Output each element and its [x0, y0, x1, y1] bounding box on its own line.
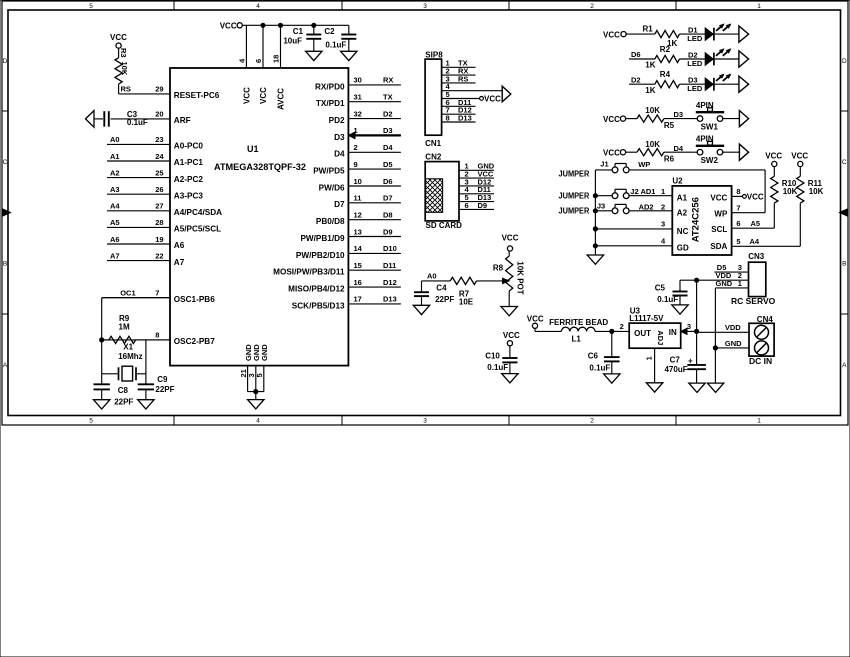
svg-text:PW/PB2/D10: PW/PB2/D10 [296, 251, 345, 260]
svg-text:A7: A7 [110, 251, 120, 260]
svg-text:19: 19 [155, 235, 163, 244]
svg-text:D4: D4 [334, 150, 345, 159]
svg-text:0.1uF: 0.1uF [487, 363, 508, 372]
svg-text:R6: R6 [664, 154, 675, 163]
svg-text:OSC1-PB6: OSC1-PB6 [174, 295, 215, 304]
svg-text:VCC: VCC [603, 115, 620, 124]
svg-text:0.1uF: 0.1uF [589, 364, 610, 373]
svg-text:LED: LED [687, 59, 703, 68]
svg-text:12: 12 [354, 211, 362, 220]
svg-text:J1: J1 [600, 160, 608, 169]
svg-text:D13: D13 [458, 113, 472, 122]
svg-text:7: 7 [736, 203, 740, 212]
svg-text:VCC: VCC [220, 22, 237, 31]
svg-text:PD2: PD2 [329, 116, 345, 125]
svg-text:FERRITE BEAD: FERRITE BEAD [549, 318, 608, 327]
svg-text:23: 23 [155, 135, 163, 144]
svg-text:WP: WP [714, 210, 728, 219]
svg-text:3: 3 [423, 3, 427, 10]
svg-text:RX: RX [383, 76, 393, 85]
svg-text:10K: 10K [645, 140, 660, 149]
svg-text:D4: D4 [674, 144, 684, 153]
svg-text:10E: 10E [459, 298, 474, 307]
svg-text:6: 6 [254, 59, 263, 63]
svg-text:ATMEGA328TQPF-32: ATMEGA328TQPF-32 [214, 162, 306, 173]
svg-text:10K: 10K [783, 187, 798, 196]
svg-text:VCC: VCC [710, 193, 727, 202]
svg-text:MISO/PB4/D12: MISO/PB4/D12 [288, 285, 345, 294]
svg-text:OSC2-PB7: OSC2-PB7 [174, 337, 215, 346]
svg-text:1: 1 [738, 279, 742, 288]
svg-text:D: D [3, 58, 8, 65]
svg-text:L1: L1 [572, 335, 582, 344]
svg-text:IN: IN [669, 328, 677, 337]
svg-text:+: + [688, 356, 693, 365]
svg-text:VDD: VDD [725, 323, 741, 332]
svg-text:A0: A0 [110, 135, 120, 144]
svg-text:VCC: VCC [110, 33, 127, 42]
svg-text:D6: D6 [631, 50, 641, 59]
svg-text:VCC: VCC [603, 148, 620, 157]
svg-text:D3: D3 [674, 110, 684, 119]
svg-text:C8: C8 [118, 386, 129, 395]
svg-text:30: 30 [354, 76, 362, 85]
svg-text:VCC: VCC [259, 87, 268, 104]
svg-text:13: 13 [354, 227, 362, 236]
svg-text:R4: R4 [660, 70, 671, 79]
svg-text:PW/PD5: PW/PD5 [313, 167, 345, 176]
svg-text:U1: U1 [247, 144, 259, 154]
svg-text:VCC: VCC [747, 193, 764, 202]
svg-text:20: 20 [155, 110, 163, 119]
svg-text:AVCC: AVCC [277, 88, 286, 110]
svg-text:A2: A2 [677, 208, 688, 217]
svg-text:8: 8 [736, 187, 740, 196]
svg-text:A1: A1 [110, 152, 120, 161]
svg-text:SDA: SDA [710, 242, 727, 251]
svg-text:10uF: 10uF [283, 37, 302, 46]
svg-text:PW/PB1/D9: PW/PB1/D9 [300, 234, 345, 243]
svg-text:TX/PD1: TX/PD1 [316, 99, 345, 108]
svg-text:R1: R1 [643, 25, 654, 34]
svg-text:JUMPER: JUMPER [559, 170, 590, 179]
svg-text:LED: LED [687, 84, 703, 93]
svg-text:L1117-5V: L1117-5V [629, 314, 664, 323]
svg-text:0.1uF: 0.1uF [127, 118, 148, 127]
svg-text:A5/PC5/SCL: A5/PC5/SCL [174, 225, 221, 234]
svg-text:D3: D3 [334, 133, 345, 142]
svg-text:1: 1 [757, 418, 761, 425]
svg-text:24: 24 [155, 152, 164, 161]
svg-text:0.1uF: 0.1uF [657, 295, 678, 304]
svg-text:NC: NC [677, 227, 689, 236]
svg-text:A3-PC3: A3-PC3 [174, 191, 204, 200]
svg-text:3: 3 [423, 418, 427, 425]
svg-text:VCC: VCC [243, 87, 252, 104]
svg-text:4: 4 [256, 3, 260, 10]
svg-text:D13: D13 [383, 295, 397, 304]
svg-text:R2: R2 [660, 45, 671, 54]
svg-text:22PF: 22PF [114, 398, 133, 407]
svg-text:0.1uF: 0.1uF [325, 41, 346, 50]
svg-text:AD2: AD2 [639, 202, 654, 211]
svg-text:CN1: CN1 [425, 139, 442, 148]
svg-text:7: 7 [155, 289, 159, 298]
svg-text:MOSI/PW/PB3/D11: MOSI/PW/PB3/D11 [273, 268, 345, 277]
svg-text:D2: D2 [631, 75, 641, 84]
svg-text:PW/D6: PW/D6 [319, 183, 345, 192]
svg-text:CN2: CN2 [425, 153, 442, 162]
svg-text:11: 11 [354, 194, 362, 203]
svg-text:25: 25 [155, 168, 163, 177]
svg-text:A5: A5 [110, 218, 120, 227]
svg-text:VCC: VCC [527, 314, 544, 323]
svg-text:A0: A0 [427, 272, 437, 281]
svg-text:A1-PC1: A1-PC1 [174, 158, 204, 167]
svg-text:10K: 10K [809, 187, 824, 196]
svg-text:SCK/PB5/D13: SCK/PB5/D13 [292, 301, 345, 310]
svg-text:1: 1 [645, 356, 654, 360]
svg-text:ADJ: ADJ [656, 330, 665, 345]
svg-text:D8: D8 [383, 211, 393, 220]
svg-text:VCC: VCC [603, 30, 620, 39]
svg-text:SD CARD: SD CARD [426, 221, 463, 230]
svg-text:GND: GND [716, 279, 733, 288]
svg-text:4PIN: 4PIN [696, 101, 714, 110]
svg-text:C: C [3, 159, 8, 166]
svg-text:1K: 1K [645, 86, 655, 95]
svg-text:1M: 1M [119, 322, 130, 331]
svg-text:5: 5 [89, 418, 93, 425]
svg-text:RS: RS [458, 74, 468, 83]
svg-text:A0-PC0: A0-PC0 [174, 142, 204, 151]
svg-text:A4/PC4/SDA: A4/PC4/SDA [174, 208, 222, 217]
svg-text:8: 8 [446, 113, 450, 122]
svg-text:JUMPER: JUMPER [559, 191, 590, 200]
svg-text:9: 9 [354, 160, 358, 169]
svg-text:1K: 1K [645, 61, 655, 70]
svg-text:A2: A2 [110, 168, 120, 177]
svg-text:D7: D7 [334, 200, 345, 209]
svg-text:R3: R3 [119, 48, 128, 58]
svg-text:D10: D10 [383, 244, 397, 253]
svg-text:C: C [842, 159, 847, 166]
svg-text:R8: R8 [493, 264, 504, 273]
svg-text:26: 26 [155, 185, 163, 194]
svg-text:28: 28 [155, 218, 163, 227]
svg-text:D7: D7 [383, 194, 393, 203]
svg-text:A4: A4 [110, 202, 120, 211]
svg-text:VCC: VCC [503, 331, 520, 340]
svg-text:SIP8: SIP8 [425, 50, 443, 59]
svg-text:3: 3 [661, 220, 665, 229]
svg-text:2: 2 [590, 3, 594, 10]
svg-text:VCC: VCC [791, 151, 808, 160]
svg-text:10K: 10K [645, 106, 660, 115]
svg-text:A6: A6 [110, 235, 120, 244]
svg-text:5: 5 [736, 237, 740, 246]
svg-text:2: 2 [354, 143, 358, 152]
svg-text:C6: C6 [588, 351, 599, 360]
svg-text:2: 2 [620, 322, 624, 331]
svg-text:VCC: VCC [765, 151, 782, 160]
svg-text:OC1: OC1 [120, 289, 135, 298]
svg-text:D: D [842, 58, 847, 65]
svg-text:29: 29 [155, 85, 163, 94]
svg-text:SCL: SCL [711, 225, 727, 234]
svg-text:VCC: VCC [502, 234, 519, 243]
svg-text:22PF: 22PF [155, 385, 174, 394]
svg-text:LED: LED [687, 34, 703, 43]
svg-text:4: 4 [256, 418, 260, 425]
svg-text:15: 15 [354, 261, 362, 270]
svg-text:18: 18 [272, 55, 281, 63]
svg-text:3: 3 [687, 322, 691, 331]
svg-text:A7: A7 [174, 258, 185, 267]
svg-text:D12: D12 [383, 278, 397, 287]
svg-text:RS: RS [121, 85, 131, 94]
svg-text:X1: X1 [123, 342, 133, 351]
svg-text:470uF: 470uF [664, 365, 687, 374]
svg-text:ARF: ARF [174, 116, 191, 125]
svg-text:C9: C9 [157, 375, 168, 384]
svg-text:D5: D5 [383, 160, 393, 169]
svg-text:TX: TX [383, 93, 393, 102]
svg-text:1: 1 [757, 3, 761, 10]
svg-text:WP: WP [638, 160, 650, 169]
svg-text:10K POT: 10K POT [516, 261, 525, 294]
svg-text:22PF: 22PF [435, 295, 454, 304]
svg-text:JUMPER: JUMPER [559, 207, 590, 216]
svg-text:C1: C1 [293, 27, 304, 36]
svg-text:GD: GD [677, 244, 689, 253]
svg-text:D11: D11 [383, 261, 396, 270]
svg-text:D9: D9 [478, 201, 488, 210]
svg-text:16Mhz: 16Mhz [118, 352, 142, 361]
svg-text:D9: D9 [383, 227, 393, 236]
svg-text:D6: D6 [383, 177, 393, 186]
svg-text:C10: C10 [485, 352, 500, 361]
svg-text:A: A [842, 362, 847, 369]
svg-text:16: 16 [354, 278, 362, 287]
svg-text:D4: D4 [383, 143, 393, 152]
svg-text:A1: A1 [677, 193, 688, 202]
svg-text:A3: A3 [110, 185, 120, 194]
svg-text:10: 10 [354, 177, 362, 186]
svg-text:RC SERVO: RC SERVO [731, 296, 776, 306]
svg-text:AT24C256: AT24C256 [691, 197, 702, 242]
svg-text:14: 14 [354, 244, 363, 253]
svg-text:2: 2 [661, 202, 665, 211]
svg-text:DC IN: DC IN [749, 356, 772, 366]
svg-text:J3: J3 [597, 202, 605, 211]
svg-text:A6: A6 [174, 241, 185, 250]
svg-text:1: 1 [661, 187, 665, 196]
svg-text:31: 31 [354, 93, 362, 102]
svg-text:PB0/D8: PB0/D8 [316, 217, 345, 226]
svg-text:U2: U2 [672, 177, 683, 186]
svg-text:GND: GND [260, 344, 269, 361]
svg-text:17: 17 [354, 295, 362, 304]
svg-text:32: 32 [354, 109, 362, 118]
svg-text:A5: A5 [751, 219, 761, 228]
svg-text:5: 5 [255, 373, 264, 377]
svg-text:D3: D3 [383, 126, 393, 135]
svg-text:OUT: OUT [634, 329, 651, 338]
svg-text:A: A [3, 362, 8, 369]
svg-text:A2-PC2: A2-PC2 [174, 175, 204, 184]
svg-text:D2: D2 [383, 109, 393, 118]
svg-text:C2: C2 [324, 27, 335, 36]
svg-text:B: B [842, 261, 846, 268]
svg-text:R5: R5 [664, 121, 675, 130]
svg-text:C7: C7 [670, 355, 681, 364]
svg-text:6: 6 [736, 219, 740, 228]
svg-text:8: 8 [155, 331, 159, 340]
svg-text:A4: A4 [750, 237, 760, 246]
svg-text:5: 5 [89, 3, 93, 10]
svg-text:B: B [3, 261, 7, 268]
svg-text:CN3: CN3 [748, 252, 765, 261]
svg-text:2: 2 [590, 418, 594, 425]
svg-text:RX/PD0: RX/PD0 [315, 82, 345, 91]
svg-text:GND: GND [725, 339, 742, 348]
svg-text:SW1: SW1 [701, 123, 719, 132]
svg-text:10K: 10K [120, 62, 129, 76]
svg-text:4PIN: 4PIN [696, 134, 714, 143]
svg-text:RESET-PC6: RESET-PC6 [174, 91, 220, 100]
svg-text:22: 22 [155, 251, 163, 260]
svg-text:J2 AD1: J2 AD1 [630, 187, 655, 196]
svg-text:C5: C5 [655, 283, 666, 292]
svg-text:6: 6 [465, 201, 469, 210]
svg-text:SW2: SW2 [701, 156, 719, 165]
svg-text:C4: C4 [436, 283, 447, 292]
svg-text:27: 27 [155, 202, 163, 211]
svg-text:VCC: VCC [484, 95, 501, 104]
